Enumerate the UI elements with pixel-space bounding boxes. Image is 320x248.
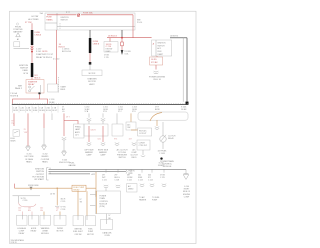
junction dot S101 (31, 51, 33, 53)
svg-text:C 1035: C 1035 (159, 153, 165, 155)
wire red pin1 (13, 113, 15, 126)
svg-text:16 TN: 16 TN (26, 110, 32, 112)
svg-text:RELAY 16 RD/LG: RELAY 16 RD/LG (36, 56, 52, 59)
connector symbol (154, 71, 159, 74)
wire red stub left (14, 184, 16, 189)
svg-text:C 138 16: C 138 16 (62, 49, 69, 51)
wire black top right (170, 37, 187, 39)
node 1 battery label (13, 23, 23, 34)
arrow down x122 (121, 50, 124, 55)
junction square right (186, 102, 189, 105)
relay symbol right (160, 136, 166, 142)
svg-text:CELL 10: CELL 10 (153, 79, 162, 81)
svg-text:PUMP: PUMP (152, 200, 158, 202)
svg-text:LAMP: LAMP (87, 154, 93, 157)
tan box H (72, 185, 86, 191)
tan curve wire (150, 113, 162, 121)
svg-text:LAMP: LAMP (101, 154, 107, 157)
svg-text:IGNITION: IGNITION (157, 43, 166, 45)
svg-text:PANEL: PANEL (26, 160, 32, 163)
svg-text:C 115: C 115 (104, 57, 109, 59)
orange drops from box H (77, 191, 79, 215)
tan wire drop x157 (156, 120, 158, 126)
fuse F2 symbol (77, 14, 80, 17)
wire red with fuse x122 (121, 38, 123, 42)
fuse panel divider (56, 13, 58, 30)
wire gray pin x52 (51, 113, 53, 120)
svg-text:LUGGAGE: LUGGAGE (17, 227, 27, 230)
svg-text:TO A/C: TO A/C (139, 196, 146, 199)
fuse panel inner line (57, 26, 135, 28)
component box 2 (29, 215, 39, 225)
svg-text:CUTOUT: CUTOUT (139, 133, 147, 135)
wire black drop x122 (121, 30, 123, 38)
box D illumination (74, 124, 84, 138)
PCM bottom drop (106, 214, 108, 220)
svg-text:MODULE: MODULE (163, 166, 172, 168)
component box 5 (73, 216, 84, 226)
connector pairs (87, 118, 91, 121)
connector symbol A1 (16, 33, 21, 37)
svg-text:RELAY: RELAY (31, 230, 38, 233)
svg-text:BK/W: BK/W (155, 109, 160, 111)
left lower feed line (13, 195, 41, 197)
wire red feed to bus (13, 99, 48, 104)
svg-text:COIL: COIL (124, 53, 128, 55)
junction dot lower right (160, 157, 162, 159)
wire red below bar3 (89, 53, 91, 62)
svg-text:WARNING: WARNING (41, 227, 50, 230)
wire red drop x56 (56, 30, 58, 84)
svg-text:C 122: C 122 (127, 180, 132, 182)
small box x131 (126, 122, 136, 130)
svg-text:RELAY: RELAY (168, 137, 175, 140)
svg-text:MARKER: MARKER (85, 151, 93, 154)
ignition switch dashes (59, 23, 61, 30)
svg-text:RELAY: RELAY (73, 188, 80, 191)
component box 1 (17, 215, 28, 225)
svg-text:PG 10: PG 10 (137, 22, 142, 24)
ground G3 triangle (62, 150, 66, 152)
svg-text:START: START (60, 86, 67, 89)
svg-text:INERTIA: INERTIA (74, 228, 82, 231)
svg-text:STARTER: STARTER (87, 78, 97, 81)
relay terminal box (48, 84, 58, 92)
svg-text:LAMP: LAMP (75, 128, 81, 131)
starter motor box (82, 70, 102, 76)
svg-text:MOTOR: MOTOR (87, 234, 94, 236)
connector arcs (87, 143, 91, 146)
svg-text:A 22: A 22 (92, 173, 96, 176)
ground right drop (185, 169, 187, 173)
svg-text:2 BATTERY TO ST: 2 BATTERY TO ST (36, 53, 54, 56)
svg-text:640 R: 640 R (91, 130, 97, 132)
fusible link bar 3 (89, 38, 92, 53)
svg-text:POWER DISTRIB: POWER DISTRIB (149, 77, 166, 79)
drop x164 (163, 169, 165, 172)
stubs into PCM (90, 194, 96, 196)
svg-text:GAUGE: GAUGE (68, 164, 76, 167)
wire red inside panel right (81, 14, 133, 16)
svg-text:ROUTE A: ROUTE A (10, 94, 19, 97)
svg-text:A/C CLUTCH: A/C CLUTCH (117, 148, 128, 151)
svg-text:C 136: C 136 (61, 209, 66, 211)
wire red to fusible link (31, 23, 33, 30)
red box warning (150, 57, 163, 65)
svg-text:LINK A: LINK A (35, 34, 42, 37)
svg-text:641: 641 (98, 139, 101, 141)
svg-text:16 OG: 16 OG (46, 110, 52, 112)
svg-text:PANEL: PANEL (46, 18, 53, 21)
bus run/start 3 (49, 173, 91, 175)
drop x18 (18, 196, 20, 203)
svg-text:16 RD: 16 RD (151, 59, 157, 61)
box small x117 (116, 113, 118, 124)
svg-text:COMP: COMP (184, 196, 190, 198)
svg-text:START: START (157, 53, 164, 56)
svg-text:WOT A/C: WOT A/C (139, 129, 147, 132)
bus pin label columns (62, 106, 138, 113)
wire black drop x90 (89, 30, 91, 38)
drop x106 (105, 169, 107, 172)
drop x118 (117, 169, 119, 172)
connector pair x157 (155, 127, 159, 130)
svg-text:OFF SW: OFF SW (75, 234, 82, 236)
svg-text:SW: SW (127, 127, 130, 129)
ground right triangle (184, 173, 189, 175)
ground G2 triangle (42, 144, 46, 146)
PCM orange edge (95, 191, 97, 214)
tan feed wire (15, 187, 73, 189)
drop x152 (151, 169, 153, 172)
wire red below box C (156, 56, 158, 57)
svg-text:OR START: OR START (34, 178, 45, 181)
svg-text:RUN: RUN (157, 51, 162, 53)
svg-text:SNDR: SNDR (10, 141, 16, 143)
wire red below bar1 (31, 45, 33, 63)
svg-text:C 123: C 123 (138, 180, 143, 182)
svg-text:16 RD/LG: 16 RD/LG (108, 36, 117, 38)
junction dot (121, 37, 123, 39)
wire red x64 with branch (64, 113, 78, 136)
svg-text:HOT AT: HOT AT (31, 15, 39, 18)
fusible link bar 1 (31, 30, 34, 45)
svg-text:4 C 140: 4 C 140 (53, 59, 59, 61)
wire red pin3 (27, 113, 29, 146)
strip pin labels (13, 107, 58, 113)
svg-text:C 124: C 124 (148, 180, 153, 182)
wire orange x131 (130, 113, 132, 122)
box I data link (101, 219, 113, 229)
svg-text:(PCM): (PCM) (99, 206, 105, 208)
wire red x89 through box (88, 126, 90, 142)
component box 4 (54, 215, 66, 225)
svg-text:CONN: CONN (104, 235, 110, 237)
svg-text:ALL TIMES: ALL TIMES (28, 18, 39, 21)
connector square (89, 62, 92, 65)
box F (137, 140, 150, 150)
fuse panel box U1 (45, 13, 135, 30)
svg-text:FIELD: FIELD (131, 157, 137, 159)
sensor symbol block (13, 130, 19, 136)
svg-text:C 135: C 135 (61, 201, 66, 203)
svg-text:FEED: FEED (23, 70, 29, 72)
wire orange into box E (131, 129, 138, 131)
svg-text:FEED: FEED (60, 89, 65, 91)
svg-text:ASSY: ASSY (89, 83, 95, 86)
starter relay box (26, 80, 44, 93)
box C accessory (152, 40, 172, 56)
svg-text:16 WH: 16 WH (39, 110, 45, 112)
ground G1 tick (26, 145, 30, 147)
wire gray x64 lower (63, 141, 65, 152)
inline connector chevrons (31, 46, 34, 50)
page border frame (10, 11, 197, 243)
svg-text:POWERTRAIN: POWERTRAIN (160, 160, 174, 163)
wire gray to starter (89, 65, 91, 70)
svg-text:A1: A1 (17, 38, 19, 41)
red bus feed (107, 37, 152, 39)
bus2 end label (126, 170, 127, 174)
svg-text:DMND: DMND (128, 189, 134, 191)
svg-text:16 LG: 16 LG (20, 110, 25, 112)
connector pair x64 (62, 137, 66, 140)
svg-text:16 GY: 16 GY (52, 110, 58, 112)
wire below relay (162, 142, 164, 149)
svg-text:OG: OG (18, 210, 21, 212)
svg-text:MOTOR: MOTOR (89, 73, 96, 75)
svg-text:MODULE: MODULE (41, 233, 49, 235)
svg-text:RELAY: RELAY (19, 232, 26, 235)
wire gray long right (182, 38, 184, 102)
svg-text:MARKER: MARKER (99, 151, 107, 154)
wire red drop right of panel (132, 15, 134, 38)
svg-text:SWITCH: SWITCH (157, 45, 165, 47)
svg-text:C 137: C 137 (36, 48, 42, 50)
wires gray x89 x103 (88, 113, 90, 117)
connector arcs x106 (104, 185, 108, 188)
wire black long right (186, 38, 188, 102)
wire red x103 through box (102, 126, 104, 142)
wire to PCM top (105, 188, 107, 191)
svg-text:C 121: C 121 (102, 180, 107, 182)
ground G1 triangle (26, 147, 31, 151)
relay contacts (29, 86, 31, 88)
wire red below bar2 (31, 77, 33, 80)
svg-text:DATA LINK: DATA LINK (103, 231, 113, 234)
drop x142 (141, 169, 143, 172)
svg-text:RELAY: RELAY (28, 83, 35, 86)
wire red branch up to relay (39, 93, 41, 99)
svg-text:973 BK: 973 BK (151, 62, 158, 64)
svg-text:S 101 16 RD: S 101 16 RD (36, 51, 48, 53)
svg-text:CTRL RLY: CTRL RLY (139, 145, 148, 147)
main horizontal bus (12, 103, 187, 105)
svg-text:HEATER: HEATER (139, 199, 147, 202)
wire red inside panel (47, 14, 76, 16)
rounded connector box right (138, 112, 188, 120)
battery terminal box (14, 42, 20, 47)
svg-text:TRAIN: TRAIN (99, 197, 105, 200)
wire below box F (142, 150, 144, 155)
box E (138, 128, 152, 136)
svg-text:C 125: C 125 (160, 177, 165, 179)
PCM box (96, 191, 121, 214)
svg-text:C 128: C 128 (114, 180, 119, 182)
tan wire from box H (86, 172, 96, 196)
svg-text:16 TN: 16 TN (50, 194, 56, 196)
svg-text:FUSE: FUSE (46, 17, 52, 19)
svg-text:FUSE 30A: FUSE 30A (83, 12, 93, 15)
svg-text:16 BK/OG: 16 BK/OG (170, 36, 179, 38)
svg-text:FEED: FEED (106, 51, 111, 53)
bus run/start 1 (49, 168, 187, 170)
svg-text:16 BK: 16 BK (181, 109, 187, 111)
component box 3 (40, 215, 51, 225)
component box 6 (86, 216, 96, 226)
svg-text:347: 347 (129, 138, 132, 140)
svg-text:PANEL: PANEL (42, 160, 48, 163)
bus run/start 2 (49, 171, 127, 173)
connector strip left (13, 106, 59, 113)
wire red pin x44 (43, 113, 45, 128)
svg-text:16 BK: 16 BK (33, 110, 39, 112)
svg-text:ASSY: ASSY (75, 131, 81, 134)
svg-text:29: 29 (24, 129, 26, 131)
svg-text:OF DASH: OF DASH (25, 158, 34, 161)
svg-text:MOTOR: MOTOR (57, 231, 64, 233)
svg-text:16 RD: 16 RD (13, 110, 19, 112)
drop x131 (130, 169, 132, 172)
svg-text:973: 973 (114, 138, 117, 140)
svg-text:LINK B: LINK B (93, 44, 100, 46)
svg-text:37 Y/W: 37 Y/W (25, 22, 32, 24)
svg-text:BK/OG DG: BK/OG DG (62, 51, 71, 53)
wire below red box (155, 65, 157, 70)
wide gauge box (84, 124, 108, 136)
pink curved wires (19, 203, 25, 207)
fusible link bar 2 (31, 63, 34, 77)
svg-text:C 230: C 230 (23, 200, 28, 202)
box G (127, 184, 137, 192)
svg-text:PAGE 2: PAGE 2 (15, 87, 23, 90)
svg-text:Y/W: Y/W (24, 132, 28, 134)
svg-text:RD/LG: RD/LG (34, 78, 41, 80)
tan drop x57 (56, 188, 58, 205)
pink drops to boxes (22, 212, 24, 216)
svg-text:SWITCH: SWITCH (61, 20, 69, 22)
svg-text:977: 977 (11, 121, 14, 123)
wire red drop into box B (109, 38, 111, 42)
svg-text:SYS 20: SYS 20 (11, 242, 17, 244)
box B ignition module (104, 42, 118, 52)
svg-text:SWITCH: SWITCH (118, 157, 126, 159)
svg-text:MOTOR: MOTOR (88, 81, 96, 83)
bracket (47, 168, 49, 180)
